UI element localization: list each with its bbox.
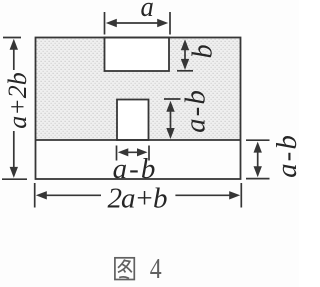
svg-text:a: a <box>141 0 154 22</box>
dimension a (top): left tick <box>104 12 106 35</box>
dimension a-b (strip): double arrow <box>118 148 148 156</box>
dimension b (right of notch): double arrow <box>181 39 189 70</box>
main rectangle outline <box>36 38 241 180</box>
cutout: middle square (a-b x a-b) <box>117 100 149 141</box>
dimension a (top): double arrow <box>106 19 168 27</box>
dimension 2a+b (bottom): double arrow (broken for label) <box>36 191 240 199</box>
svg-text:a-b: a-b <box>180 88 212 133</box>
dimension a-b (right side): double arrow <box>254 142 262 178</box>
shaded region (upper interior of main rectangle) <box>36 38 241 141</box>
dimension 2a+b (bottom): left tick <box>34 183 36 208</box>
horizontal divider line (top of bottom strip) <box>36 139 241 141</box>
dimension a-b (right side, strip height): top tick <box>246 139 270 141</box>
dimension a-b (inside bottom strip): left tick <box>116 146 118 161</box>
dimension b: bottom tick <box>177 70 193 72</box>
svg-text:a-b: a-b <box>271 133 299 178</box>
dimension 2a+b (bottom): right tick <box>240 183 242 208</box>
dimension a+2b (left): top tick <box>3 37 21 39</box>
dimension a+2b (left): bottom tick <box>2 178 27 180</box>
cutout: top notch (white rectangle a x b) <box>105 38 170 72</box>
dimension a-b (middle): double arrow <box>166 101 174 139</box>
dimension a-b (right of middle square): top tick <box>164 98 181 100</box>
svg-text:a-b: a-b <box>113 153 158 185</box>
dimension a-b (strip): right tick <box>148 146 150 161</box>
caption character 图 (drawn strokes) <box>115 258 134 280</box>
dimension a (top): right tick <box>169 12 171 35</box>
dimension a-b (right side): bottom tick <box>246 178 270 180</box>
svg-text:a+2b: a+2b <box>3 72 32 129</box>
svg-text:2a+b: 2a+b <box>107 182 167 214</box>
svg-text:b: b <box>187 44 218 58</box>
dimension a+2b (left): double arrow (broken for label) <box>10 39 18 178</box>
svg-text:4: 4 <box>150 252 162 285</box>
